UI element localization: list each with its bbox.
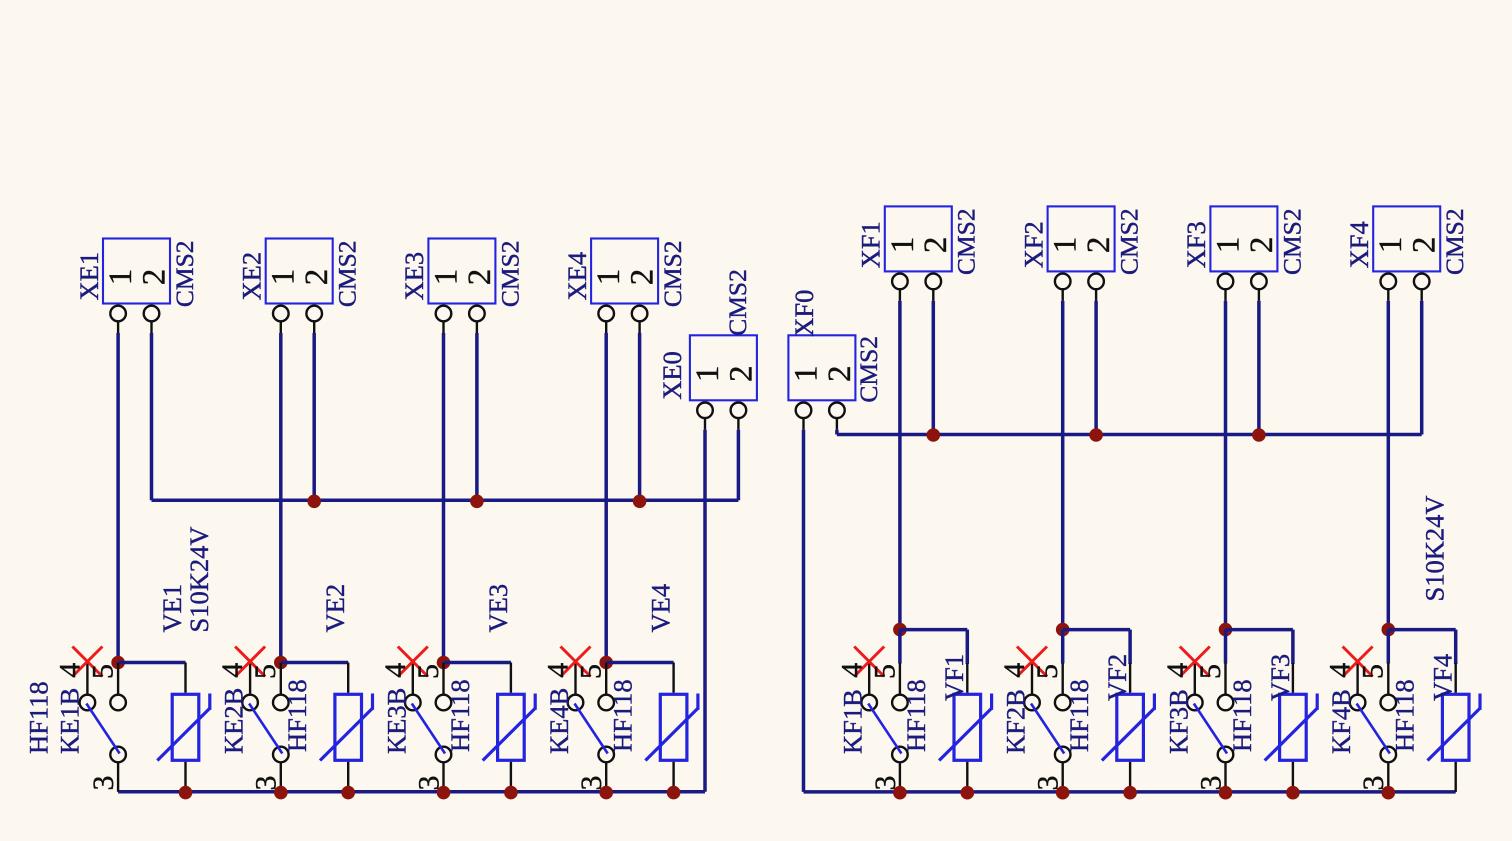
svg-text:KF3B: KF3B bbox=[1163, 689, 1193, 754]
svg-text:HF118: HF118 bbox=[1064, 679, 1094, 752]
svg-text:XF4: XF4 bbox=[1344, 221, 1374, 268]
svg-text:1: 1 bbox=[591, 269, 627, 286]
svg-text:4: 4 bbox=[835, 663, 868, 678]
svg-text:5: 5 bbox=[868, 664, 901, 679]
svg-text:5: 5 bbox=[87, 664, 120, 679]
svg-text:2: 2 bbox=[136, 269, 172, 286]
svg-text:KE4B: KE4B bbox=[544, 688, 574, 754]
svg-text:CMS2: CMS2 bbox=[658, 240, 687, 307]
svg-text:XE0: XE0 bbox=[657, 351, 687, 400]
svg-text:1: 1 bbox=[1373, 237, 1409, 254]
svg-text:KF4B: KF4B bbox=[1326, 689, 1356, 754]
svg-text:2: 2 bbox=[918, 237, 954, 254]
svg-text:2: 2 bbox=[625, 269, 661, 286]
svg-text:CMS2: CMS2 bbox=[495, 240, 524, 307]
svg-text:2: 2 bbox=[1407, 237, 1443, 254]
svg-text:CMS2: CMS2 bbox=[1440, 208, 1469, 275]
svg-text:3: 3 bbox=[87, 776, 120, 791]
svg-text:VF4: VF4 bbox=[1428, 654, 1458, 701]
svg-text:S10K24V: S10K24V bbox=[1419, 495, 1449, 601]
svg-text:XF2: XF2 bbox=[1018, 221, 1048, 268]
svg-text:KE2B: KE2B bbox=[219, 688, 249, 754]
svg-text:VE4: VE4 bbox=[646, 584, 676, 633]
svg-text:2: 2 bbox=[723, 366, 759, 383]
svg-text:5: 5 bbox=[249, 664, 282, 679]
svg-text:1: 1 bbox=[690, 366, 726, 383]
svg-text:5: 5 bbox=[1194, 664, 1227, 679]
svg-text:XE1: XE1 bbox=[74, 252, 104, 301]
svg-text:2: 2 bbox=[462, 269, 498, 286]
svg-text:2: 2 bbox=[299, 269, 335, 286]
svg-text:CMS2: CMS2 bbox=[723, 269, 752, 336]
svg-text:HF118: HF118 bbox=[282, 679, 312, 752]
svg-text:CMS2: CMS2 bbox=[854, 336, 883, 403]
svg-text:VF1: VF1 bbox=[939, 654, 969, 701]
svg-text:KF1B: KF1B bbox=[838, 689, 868, 754]
svg-text:CMS2: CMS2 bbox=[170, 240, 199, 307]
svg-text:S10K24V: S10K24V bbox=[184, 526, 214, 632]
svg-text:CMS2: CMS2 bbox=[333, 240, 362, 307]
svg-text:4: 4 bbox=[54, 663, 87, 678]
svg-text:HF118: HF118 bbox=[608, 679, 638, 752]
svg-text:2: 2 bbox=[822, 366, 858, 383]
svg-text:HF118: HF118 bbox=[901, 679, 931, 752]
svg-text:HF118: HF118 bbox=[1227, 679, 1257, 752]
svg-text:1: 1 bbox=[428, 269, 464, 286]
svg-text:KE3B: KE3B bbox=[381, 688, 411, 754]
svg-text:XE2: XE2 bbox=[237, 252, 267, 301]
svg-text:CMS2: CMS2 bbox=[1277, 208, 1306, 275]
svg-text:5: 5 bbox=[412, 664, 445, 679]
svg-text:VE1: VE1 bbox=[157, 584, 187, 633]
svg-text:VE3: VE3 bbox=[483, 584, 513, 633]
svg-text:1: 1 bbox=[788, 366, 824, 383]
svg-text:1: 1 bbox=[1048, 237, 1084, 254]
svg-text:4: 4 bbox=[998, 663, 1031, 678]
svg-text:XF0: XF0 bbox=[789, 290, 819, 337]
svg-text:XF3: XF3 bbox=[1181, 221, 1211, 268]
svg-text:XE4: XE4 bbox=[562, 252, 592, 301]
svg-text:1: 1 bbox=[885, 237, 921, 254]
svg-text:4: 4 bbox=[379, 663, 412, 678]
svg-text:HF118: HF118 bbox=[23, 681, 53, 754]
svg-text:1: 1 bbox=[266, 269, 302, 286]
svg-text:5: 5 bbox=[1357, 664, 1390, 679]
svg-text:4: 4 bbox=[542, 663, 575, 678]
svg-text:4: 4 bbox=[216, 663, 249, 678]
svg-text:1: 1 bbox=[103, 269, 139, 286]
svg-text:5: 5 bbox=[1031, 664, 1064, 679]
svg-text:HF118: HF118 bbox=[1390, 679, 1420, 752]
svg-text:KE1B: KE1B bbox=[54, 688, 84, 754]
svg-text:5: 5 bbox=[575, 664, 608, 679]
svg-text:4: 4 bbox=[1324, 663, 1357, 678]
svg-text:VF3: VF3 bbox=[1265, 654, 1295, 701]
svg-text:XF1: XF1 bbox=[856, 221, 886, 268]
svg-text:2: 2 bbox=[1244, 237, 1280, 254]
svg-text:VE2: VE2 bbox=[320, 584, 350, 633]
svg-text:XE3: XE3 bbox=[399, 252, 429, 301]
svg-text:KF2B: KF2B bbox=[1001, 689, 1031, 754]
svg-text:VF2: VF2 bbox=[1102, 654, 1132, 701]
svg-text:HF118: HF118 bbox=[445, 679, 475, 752]
svg-text:2: 2 bbox=[1081, 237, 1117, 254]
svg-text:4: 4 bbox=[1161, 663, 1194, 678]
svg-text:CMS2: CMS2 bbox=[952, 208, 981, 275]
svg-text:1: 1 bbox=[1210, 237, 1246, 254]
svg-text:CMS2: CMS2 bbox=[1115, 208, 1144, 275]
